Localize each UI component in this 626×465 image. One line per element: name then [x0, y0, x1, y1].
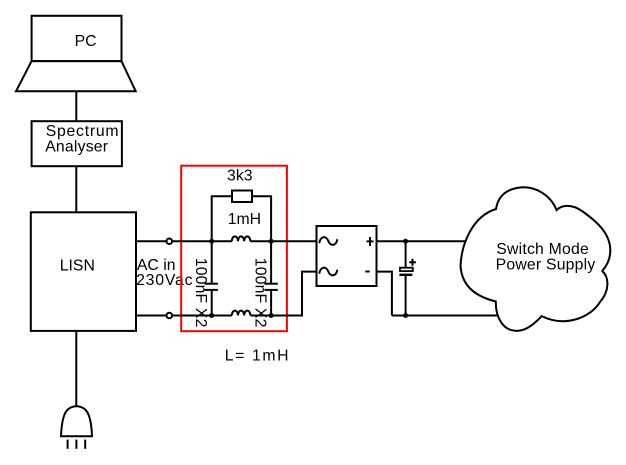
junction node top-left: [209, 239, 214, 244]
resistor R1 leads: [212, 196, 232, 241]
wire LISN to mains plug: [75, 331, 77, 407]
mains plug body: [61, 406, 92, 436]
plus label at capacitor: [409, 261, 416, 263]
Spectrum Analyser box: [32, 121, 122, 166]
wire rectifier - output down: [377, 272, 392, 316]
plug pin 2: [75, 440, 77, 449]
resistor R1 body: [232, 191, 252, 203]
junction node dc bottom: [403, 313, 408, 318]
wire bottom dc rail to SMPS: [392, 315, 520, 317]
svg-text:Analyser: Analyser: [45, 138, 108, 155]
inductor L2 bottom rail: [232, 311, 251, 316]
capacitor C2 plates: [264, 283, 277, 285]
junction node bottom-left: [209, 313, 214, 318]
svg-text:L= 1mH: L= 1mH: [225, 348, 290, 365]
plus label in rectifier: [367, 240, 374, 242]
electrolytic capacitor C3 wires: [405, 241, 407, 267]
svg-text:3k3: 3k3: [227, 167, 253, 184]
svg-text:230Vac: 230Vac: [136, 272, 193, 289]
svg-text:100nF X2: 100nF X2: [192, 258, 209, 328]
PC laptop keyboard: [16, 61, 136, 91]
svg-text:1mH: 1mH: [228, 211, 261, 228]
svg-text:100nF X2: 100nF X2: [252, 258, 269, 328]
wire bottom rail (neutral) LISN to corner: [136, 315, 232, 317]
svg-text:Power Supply: Power Supply: [496, 257, 596, 274]
electrolytic capacitor C3 top plate: [400, 268, 413, 271]
capacitor C2 wires: [270, 241, 272, 283]
electrolytic capacitor C3 bottom plate: [399, 274, 412, 276]
plug pin 1: [67, 440, 69, 449]
PC laptop screen: [32, 16, 122, 61]
cloud Switch Mode Power Supply: [461, 187, 611, 331]
AC tilde bottom: [319, 268, 337, 276]
junction node top-right: [269, 239, 274, 244]
capacitor C1 wires: [211, 241, 213, 283]
AC tilde top: [319, 237, 337, 245]
plug pin 3: [84, 440, 86, 449]
wire PC to Spectrum Analyser: [75, 91, 77, 121]
terminal circle bottom: [167, 313, 173, 319]
capacitor C1 plates: [205, 283, 218, 285]
junction node dc top: [403, 239, 408, 244]
junction node bottom-right: [269, 313, 274, 318]
minus label in rectifier: [365, 271, 369, 273]
svg-text:Switch Mode: Switch Mode: [496, 241, 589, 258]
wire top rail (live) LISN to rectifier: [136, 240, 232, 242]
svg-text:LISN: LISN: [60, 257, 95, 274]
svg-text:PC: PC: [75, 33, 97, 50]
wire rectifier + output to SMPS: [377, 240, 531, 242]
wire Spectrum Analyser to LISN: [75, 166, 77, 212]
bridge rectifier U1 box: [317, 226, 377, 286]
inductor L1 top rail: [232, 236, 251, 241]
LISN box: [31, 212, 136, 331]
terminal circle top: [167, 238, 173, 244]
red filter boundary box: [181, 166, 287, 332]
